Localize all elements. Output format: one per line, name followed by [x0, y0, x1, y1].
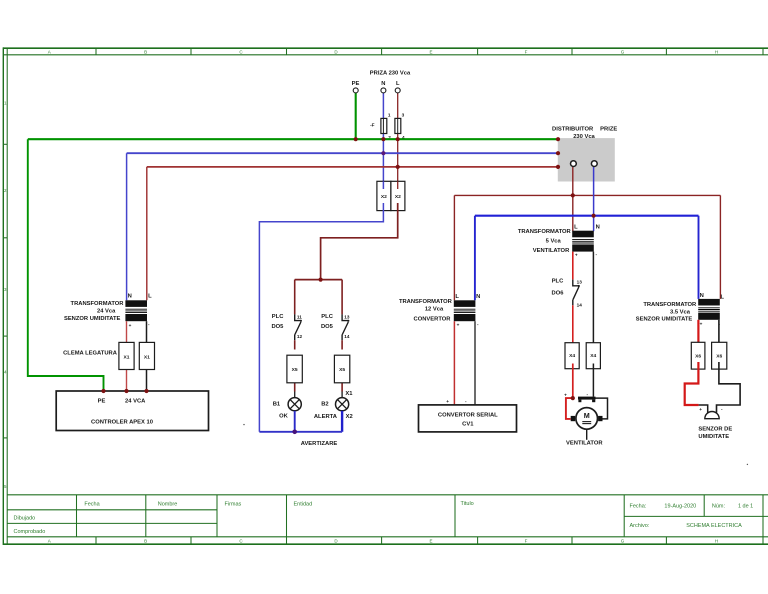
svg-text:TRANSFORMATOR: TRANSFORMATOR [71, 301, 125, 307]
svg-text:PRIZE: PRIZE [600, 126, 617, 132]
svg-text:Núm:: Núm: [712, 504, 726, 510]
svg-text:24 Vca: 24 Vca [97, 309, 116, 315]
svg-text:14: 14 [344, 334, 350, 339]
svg-text:TRANSFORMATOR: TRANSFORMATOR [643, 302, 697, 308]
svg-text:1: 1 [388, 112, 391, 117]
svg-text:SCHEMA ELECTRICA: SCHEMA ELECTRICA [686, 523, 742, 529]
svg-text:X2: X2 [381, 194, 387, 200]
svg-text:X6: X6 [716, 353, 722, 359]
svg-text:PE: PE [98, 399, 106, 405]
svg-text:SENZOR DE: SENZOR DE [698, 427, 732, 433]
svg-text:1 de 1: 1 de 1 [738, 504, 753, 510]
svg-text:DO5: DO5 [321, 324, 334, 330]
svg-text:L: L [721, 294, 725, 300]
svg-text:Dibujado: Dibujado [14, 516, 36, 522]
svg-text:G: G [621, 538, 625, 543]
svg-text:13: 13 [344, 315, 350, 320]
svg-text:230 Vca: 230 Vca [573, 134, 595, 140]
svg-text:Comprobado: Comprobado [14, 529, 46, 535]
svg-text:OK: OK [279, 413, 289, 419]
svg-text:X2: X2 [395, 194, 401, 200]
svg-text:Archivo:: Archivo: [630, 523, 650, 529]
svg-text:AVERTIZARE: AVERTIZARE [301, 441, 338, 447]
svg-text:C: C [239, 538, 243, 543]
svg-text:F: F [525, 538, 528, 543]
svg-text:UMIDITATE: UMIDITATE [698, 434, 729, 440]
svg-text:CLEMA LEGATURA: CLEMA LEGATURA [63, 351, 118, 357]
svg-text:SENZOR UMIDITATE: SENZOR UMIDITATE [636, 317, 693, 323]
svg-text:Nombre: Nombre [158, 502, 178, 508]
svg-text:D: D [334, 49, 338, 54]
svg-text:H: H [715, 49, 718, 54]
svg-text:1: 1 [4, 101, 7, 106]
svg-text:TRANSFORMATOR: TRANSFORMATOR [518, 229, 572, 235]
svg-text:B1: B1 [273, 402, 281, 408]
svg-text:CONVERTOR SERIAL: CONVERTOR SERIAL [438, 412, 498, 418]
svg-text:L: L [574, 225, 578, 231]
svg-text:PLC: PLC [321, 314, 333, 320]
svg-text:DO6: DO6 [552, 290, 565, 296]
svg-text:M: M [584, 411, 590, 420]
svg-text:TRANSFORMATOR: TRANSFORMATOR [399, 299, 453, 305]
svg-text:+: + [575, 253, 578, 258]
svg-text:X1: X1 [345, 391, 353, 397]
svg-text:CONVERTOR: CONVERTOR [414, 316, 452, 322]
svg-text:Titulo: Titulo [461, 501, 474, 507]
svg-text:X4: X4 [569, 353, 575, 359]
svg-text:2: 2 [4, 188, 7, 193]
svg-text:A: A [48, 538, 51, 543]
svg-text:VENTILATOR: VENTILATOR [566, 441, 603, 447]
svg-text:N: N [596, 225, 600, 231]
svg-text:X6: X6 [695, 353, 701, 359]
svg-text:VENTILATOR: VENTILATOR [533, 248, 570, 254]
svg-text:B: B [144, 49, 147, 54]
svg-text:X2: X2 [346, 414, 353, 420]
svg-text:3.5 Vca: 3.5 Vca [670, 309, 691, 315]
svg-text:N: N [476, 294, 480, 300]
svg-text:E: E [429, 538, 432, 543]
svg-text:14: 14 [577, 302, 583, 307]
svg-text:-F: -F [370, 122, 375, 127]
svg-text:4: 4 [4, 370, 7, 375]
svg-text:B2: B2 [321, 402, 328, 408]
svg-text:+: + [564, 392, 567, 397]
svg-text:G: G [621, 49, 625, 54]
svg-text:-: - [596, 252, 598, 257]
svg-text:N: N [700, 293, 704, 299]
svg-text:C: C [239, 49, 243, 54]
svg-text:-: - [721, 407, 723, 412]
svg-text:D: D [334, 538, 338, 543]
svg-text:L: L [396, 81, 400, 87]
svg-text:X1: X1 [124, 355, 130, 361]
svg-text:3: 3 [402, 112, 405, 117]
svg-text:12: 12 [297, 334, 303, 339]
svg-text:X5: X5 [339, 367, 345, 373]
svg-text:DO5: DO5 [271, 324, 284, 330]
svg-text:Fecha:: Fecha: [630, 504, 647, 510]
svg-text:PLC: PLC [272, 314, 284, 320]
svg-text:X1: X1 [144, 355, 150, 361]
svg-text:-: - [465, 399, 467, 404]
svg-text:A: A [48, 49, 51, 54]
svg-text:L: L [148, 294, 152, 300]
svg-text:CONTROLER APEX 10: CONTROLER APEX 10 [91, 419, 153, 425]
svg-text:+: + [699, 407, 702, 412]
svg-text:N: N [381, 81, 385, 87]
svg-text:19-Aug-2020: 19-Aug-2020 [664, 504, 696, 510]
svg-text:-: - [148, 322, 150, 327]
svg-text:DISTRIBUITOR: DISTRIBUITOR [552, 126, 594, 132]
svg-text:+: + [457, 323, 460, 328]
svg-text:CV1: CV1 [462, 421, 474, 427]
svg-text:-: - [477, 322, 479, 327]
svg-text:E: E [429, 49, 432, 54]
svg-text:Firmas: Firmas [225, 502, 242, 508]
svg-text:H: H [715, 538, 718, 543]
svg-text:Fecha: Fecha [84, 502, 100, 508]
svg-text:L: L [455, 294, 459, 300]
svg-text:PE: PE [352, 81, 360, 87]
svg-text:13: 13 [577, 279, 583, 284]
svg-text:PLC: PLC [552, 279, 564, 285]
svg-text:5: 5 [4, 484, 7, 489]
svg-text:X4: X4 [590, 353, 596, 359]
svg-text:3: 3 [4, 287, 7, 292]
svg-text:12 Vca: 12 Vca [425, 307, 444, 313]
svg-text:X5: X5 [292, 367, 298, 373]
svg-text:ALERTA: ALERTA [314, 414, 338, 420]
svg-text:Entidad: Entidad [294, 502, 313, 508]
svg-text:+: + [129, 323, 132, 328]
svg-text:B: B [144, 538, 147, 543]
svg-text:PRIZA 230 Vca: PRIZA 230 Vca [370, 71, 411, 77]
svg-text:+: + [700, 322, 703, 327]
svg-text:N: N [128, 294, 132, 300]
svg-text:SENZOR UMIDITATE: SENZOR UMIDITATE [64, 316, 121, 322]
svg-text:F: F [525, 49, 528, 54]
svg-text:-: - [587, 392, 589, 397]
svg-text:+: + [446, 399, 449, 404]
svg-text:24 VCA: 24 VCA [125, 399, 146, 405]
svg-text:11: 11 [297, 315, 302, 320]
svg-text:5 Vca: 5 Vca [546, 238, 562, 244]
